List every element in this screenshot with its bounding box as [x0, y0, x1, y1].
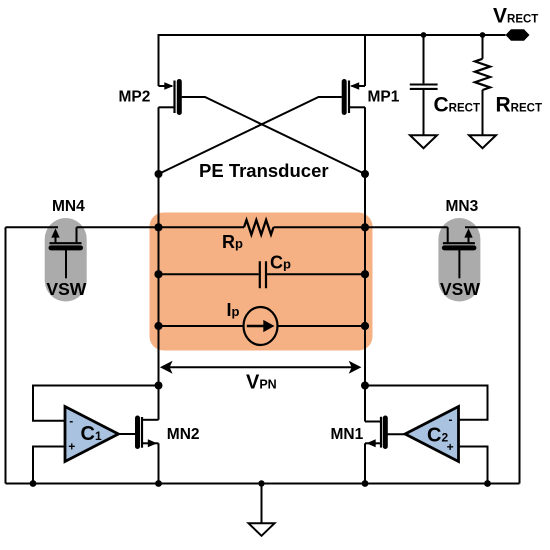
- MN2 source lead: [143, 442, 159, 444]
- MP2 gate bar: [177, 82, 182, 113]
- node left Rp: [154, 223, 162, 231]
- wire top rail V_RECT: [159, 35, 506, 86]
- transistor MN2: [117, 417, 159, 448]
- op-amp C1 triangle: [65, 407, 118, 462]
- node left below box: [155, 382, 163, 390]
- V_PN dimension arrow shaft: [168, 366, 353, 368]
- MP2 channel line: [173, 81, 175, 114]
- MN1 channel line: [380, 417, 382, 448]
- node right Ip: [361, 322, 369, 330]
- MN2 gate lead from C1 output: [117, 433, 135, 435]
- MP1 gate bar: [342, 82, 347, 113]
- transistor MN3: [443, 227, 475, 278]
- MP1 channel line: [348, 81, 350, 114]
- ground under R_RECT: [469, 135, 496, 148]
- wire Cp branch left: [159, 273, 259, 275]
- wire cross-couple MP1 gate to left node: [159, 97, 342, 174]
- wire C_RECT drop: [423, 35, 425, 83]
- svg-text:VSW: VSW: [46, 279, 86, 299]
- wire MN4 to left rail node and Rp branch left: [77, 226, 245, 228]
- wire far-right vertical: [519, 227, 521, 483]
- capacitor Cp plates: [260, 261, 266, 288]
- transistor MP2: [159, 81, 180, 114]
- svg-text:PE Transducer: PE Transducer: [199, 160, 329, 181]
- wire below C_RECT to ground: [423, 90, 425, 135]
- wire MN2 drain rail segment: [158, 386, 160, 420]
- MP2 source arrow: [164, 82, 173, 90]
- MN4 source arrow: [51, 228, 59, 237]
- MN1 source lead: [365, 442, 380, 444]
- wire right rail MP1 drain down to node: [364, 107, 366, 385]
- MP2 source lead: [159, 85, 173, 87]
- wire Cp branch right: [267, 273, 365, 275]
- op-amp C2 triangle: [405, 407, 458, 462]
- MN3 drain lead: [447, 227, 449, 242]
- MN1 gate lead from C2 output: [388, 433, 407, 435]
- node C2 plus bottom: [484, 480, 491, 487]
- MN2 drain lead: [143, 419, 159, 421]
- node MN1 source bottom: [362, 480, 369, 487]
- MP1 drain lead: [350, 106, 365, 108]
- ground bottom center: [249, 523, 275, 536]
- wire Rp branch right to MN3: [274, 226, 448, 228]
- wire MN1 source rail segment: [364, 443, 366, 483]
- MP2 drain lead: [159, 106, 174, 108]
- V_PN right arrowhead: [349, 361, 362, 374]
- MN3 source arrow: [464, 228, 472, 237]
- node left PE top: [155, 170, 163, 178]
- MN4 gate bar: [51, 245, 81, 250]
- svg-text:MP1: MP1: [368, 89, 400, 106]
- transistor MN1: [365, 417, 407, 448]
- node ground bottom: [258, 480, 264, 486]
- MN2 gate bar: [135, 418, 140, 447]
- wire R_RECT drop: [482, 35, 484, 59]
- MN4 source arrow shaft: [55, 232, 57, 242]
- node R_RECT top: [480, 32, 486, 38]
- node right PE top: [361, 170, 369, 178]
- svg-text:MN2: MN2: [167, 426, 200, 443]
- MN2 source arrow: [148, 439, 157, 447]
- node right below box: [361, 382, 369, 390]
- node C1 plus bottom: [30, 480, 37, 487]
- svg-text:MN4: MN4: [52, 198, 85, 215]
- current source Ip arrow: [247, 325, 264, 327]
- resistor Rp zigzag: [244, 220, 273, 235]
- wire C2 plus input loop: [459, 447, 487, 484]
- MN4 drain lead: [76, 227, 78, 242]
- wire MN3 to far-right: [465, 226, 520, 228]
- wire C2 minus input loop: [365, 386, 488, 420]
- svg-text:MN1: MN1: [331, 426, 364, 443]
- MN3 gate stem to VSW: [458, 250, 460, 278]
- MN3 channel plate: [443, 242, 475, 244]
- gray capsule around MN4: [45, 218, 87, 302]
- MP1 source lead: [352, 85, 366, 87]
- MN4 channel plate: [50, 242, 82, 244]
- MN4 gate stem to VSW: [65, 250, 67, 278]
- node left Ip: [154, 322, 162, 330]
- wire C1 minus input loop: [33, 386, 159, 421]
- MN1 gate bar: [383, 418, 388, 447]
- wire MN2 source rail segment: [158, 443, 160, 483]
- resistor R_RECT zigzag: [475, 59, 490, 90]
- MN3 source arrow shaft: [468, 232, 470, 242]
- MN2 channel line: [141, 417, 143, 448]
- transistor MP1: [344, 81, 365, 114]
- current source Ip circle: [244, 307, 278, 345]
- node left Cp: [154, 270, 162, 278]
- V_RECT terminal hexagon: [506, 29, 530, 40]
- wire C1 plus input loop: [33, 447, 64, 484]
- wire far-left horizontal to MN4: [6, 226, 59, 228]
- svg-text:MN3: MN3: [446, 198, 479, 215]
- node MN2 source bottom: [155, 480, 162, 487]
- wire ground stub bottom center: [261, 484, 263, 524]
- gray capsule around MN3: [438, 218, 480, 302]
- MP1 source arrow: [350, 82, 359, 90]
- node right Cp: [361, 270, 369, 278]
- capacitor C_RECT plates: [410, 85, 438, 89]
- node C_RECT top: [421, 32, 427, 38]
- wire bottom rail: [6, 483, 520, 485]
- wire MN1 drain rail segment: [364, 386, 366, 422]
- V_PN left arrowhead: [160, 361, 173, 374]
- wire far-left vertical: [5, 227, 7, 483]
- svg-text:+: +: [68, 440, 75, 454]
- svg-text:MP2: MP2: [119, 89, 151, 106]
- node right Rp: [361, 223, 369, 231]
- MN1 source arrow: [366, 439, 375, 447]
- svg-text:+: +: [447, 440, 454, 454]
- svg-text:-: -: [449, 413, 453, 427]
- MN1 drain lead: [365, 421, 380, 423]
- transistor MN4: [50, 227, 82, 278]
- wire left rail MP2 drain down to node: [158, 107, 160, 385]
- ground under C_RECT: [410, 135, 437, 148]
- wire MP1 source drop: [364, 35, 366, 86]
- orange highlight box (PE transducer model): [150, 213, 373, 351]
- svg-text:-: -: [69, 414, 73, 428]
- wire below R_RECT to ground: [482, 90, 484, 135]
- wire cross-couple MP2 gate to right node: [182, 97, 365, 174]
- svg-text:VSW: VSW: [440, 279, 480, 299]
- wire Ip branch right: [277, 325, 365, 327]
- MN3 gate bar: [444, 245, 474, 250]
- wire Ip branch left: [159, 325, 245, 327]
